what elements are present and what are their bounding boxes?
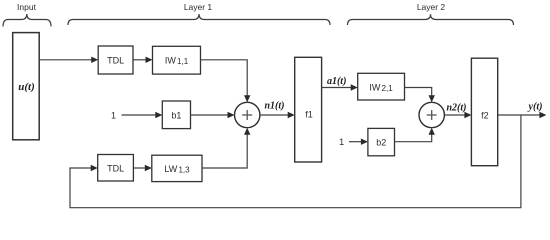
wire f2 to output y(t) <box>498 114 540 116</box>
block u(t) input vector <box>13 33 40 140</box>
wire u(t) to TDL1 <box>39 59 91 61</box>
wire sum S2 to f2 <box>444 114 464 116</box>
sum junction S1 <box>235 102 260 127</box>
svg-text:n1(t): n1(t) <box>265 101 285 112</box>
block IW 2,1 layer weight <box>358 73 405 100</box>
svg-text:Layer 2: Layer 2 <box>417 2 446 12</box>
wire b1 to sum S1 <box>191 114 228 116</box>
svg-text:IW1,1: IW1,1 <box>165 55 189 66</box>
wire 1 to b1 <box>122 114 156 116</box>
wire sum S1 to f1 <box>260 114 288 116</box>
wire IW 1,1 to sum S1 top <box>201 60 248 96</box>
block b1 bias <box>162 101 190 129</box>
wire feedback y(t) to TDL2 <box>70 115 521 208</box>
wire 1 to b2 <box>349 141 361 143</box>
brace Layer 1 group <box>68 14 330 25</box>
svg-text:u(t): u(t) <box>18 81 35 93</box>
sum junction S2 <box>419 102 444 127</box>
block TDL1 (tapped delay line, input) <box>98 46 133 74</box>
svg-text:TDL: TDL <box>107 55 124 65</box>
wire TDL1 to IW 1,1 <box>133 59 146 61</box>
svg-text:1: 1 <box>111 110 116 120</box>
svg-text:y(t): y(t) <box>528 101 543 112</box>
wire f1 to IW 2,1 <box>322 87 351 89</box>
brace Layer 2 group <box>348 14 514 25</box>
svg-text:f2: f2 <box>481 111 489 121</box>
block f2 transfer function <box>471 58 497 166</box>
svg-text:IW2,1: IW2,1 <box>369 82 393 93</box>
wire b2 to sum S2 bottom <box>395 135 432 142</box>
brace Input group <box>3 14 51 27</box>
block LW 1,3 layer weight <box>152 155 202 181</box>
wire IW 2,1 to sum S2 top <box>405 88 432 96</box>
svg-text:n2(t): n2(t) <box>447 103 467 114</box>
block IW 1,1 input weight <box>153 46 201 74</box>
wire LW 1,3 to sum S1 bottom <box>202 135 247 169</box>
svg-text:TDL: TDL <box>107 164 124 174</box>
svg-text:b1: b1 <box>171 110 181 120</box>
svg-text:f1: f1 <box>305 110 313 120</box>
svg-text:Input: Input <box>17 2 37 12</box>
svg-text:a1(t): a1(t) <box>327 76 346 87</box>
wire TDL2 to LW 1,3 <box>133 167 145 169</box>
block TDL2 (tapped delay line, feedback) <box>98 155 134 182</box>
block f1 transfer function <box>295 57 322 162</box>
svg-text:Layer 1: Layer 1 <box>184 2 213 12</box>
svg-text:b2: b2 <box>376 137 386 147</box>
block b2 bias <box>368 128 395 155</box>
svg-text:1: 1 <box>339 137 344 147</box>
